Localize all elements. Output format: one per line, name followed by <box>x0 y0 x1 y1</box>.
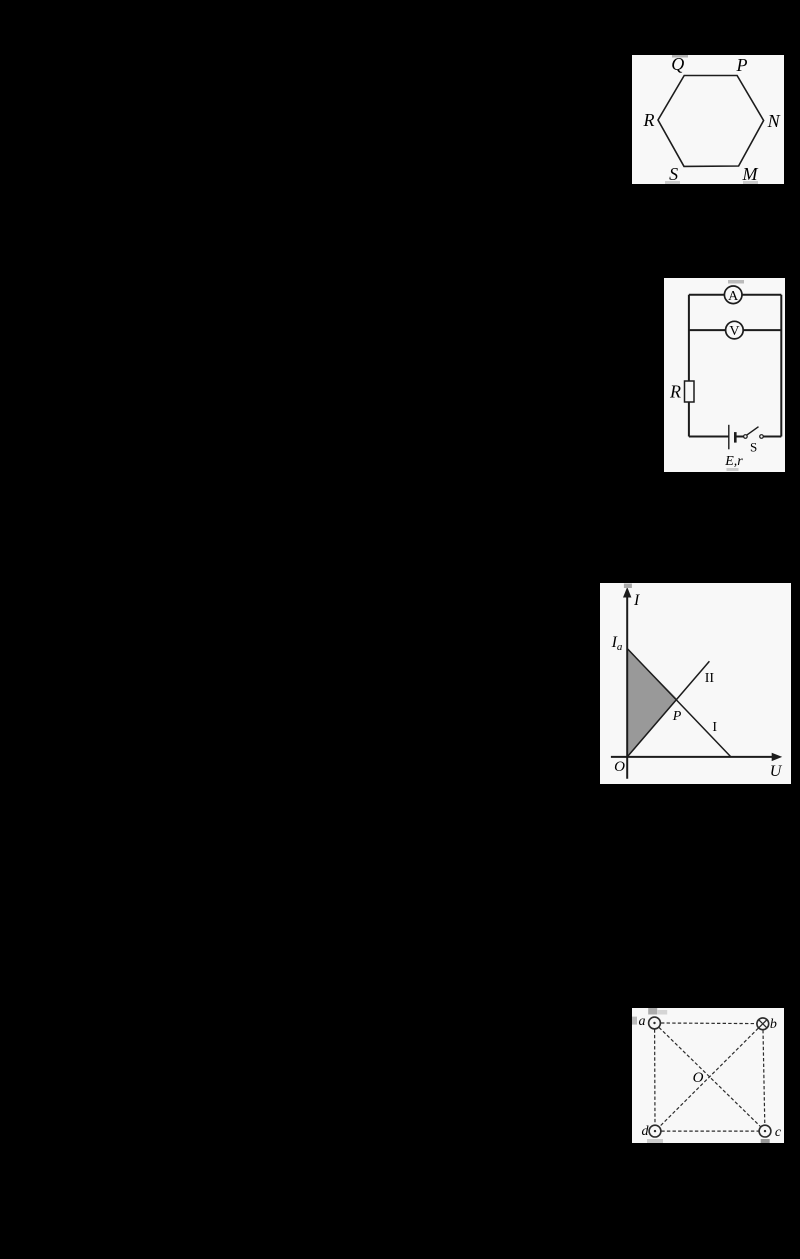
svg-text:P: P <box>736 55 748 75</box>
shaded triangle <box>627 649 677 757</box>
svg-text:V: V <box>729 324 739 339</box>
figure 4: square abcd with field-line symbols <box>632 1008 784 1143</box>
dashed square edge a-d <box>654 1029 656 1125</box>
scan smudge top <box>728 280 744 284</box>
svg-text:A: A <box>728 289 739 304</box>
svg-text:I: I <box>633 592 640 609</box>
scan smudge left <box>632 1017 637 1025</box>
switch S contact left <box>744 435 748 439</box>
svg-text:U: U <box>770 763 783 780</box>
axis U (horizontal) <box>611 756 778 758</box>
wire c (current out) <box>759 1125 771 1137</box>
scan smudge bottom right <box>761 1139 770 1143</box>
scan smudge bottom right <box>743 181 758 184</box>
svg-text:b: b <box>770 1017 777 1032</box>
svg-text:I: I <box>712 720 717 735</box>
wire battery to switch <box>735 436 743 438</box>
svg-text:R: R <box>643 110 655 130</box>
wire bottom left <box>689 436 729 438</box>
scan smudge bottom <box>727 468 739 471</box>
switch S lever <box>747 427 759 436</box>
battery E,r long plate <box>728 425 730 450</box>
wire a (current out) <box>649 1017 661 1029</box>
battery E,r short plate <box>734 432 737 443</box>
svg-text:a: a <box>639 1014 646 1029</box>
axis I (vertical) <box>626 591 628 779</box>
resistor R <box>685 381 695 402</box>
dashed diagonal b-d <box>659 1028 758 1127</box>
svg-text:c: c <box>775 1125 782 1140</box>
dashed square edge b-c <box>763 1030 765 1125</box>
ammeter A1 <box>724 286 742 304</box>
scan smudge top <box>672 55 688 58</box>
figure 1: hexagon QPNMSR <box>632 55 784 184</box>
dashed square edge a-b <box>661 1022 757 1025</box>
svg-text:Q: Q <box>671 55 684 74</box>
svg-text:O: O <box>693 1070 704 1086</box>
figure 3: I-U graph <box>600 583 791 784</box>
voltmeter V1 <box>726 321 744 339</box>
scan smudge top <box>624 584 632 589</box>
line II <box>627 661 709 757</box>
dashed square edge d-c <box>661 1130 758 1132</box>
wire top <box>689 294 781 296</box>
svg-text:O: O <box>614 759 625 775</box>
svg-text:II: II <box>705 671 715 686</box>
scan smudge top <box>648 1008 657 1015</box>
svg-text:R: R <box>669 382 681 402</box>
svg-text:S: S <box>750 440 757 455</box>
wire right vertical <box>780 295 782 437</box>
svg-text:N: N <box>767 111 781 131</box>
dashed diagonal a-c <box>659 1027 761 1126</box>
wire voltmeter branch <box>689 329 781 331</box>
svg-text:d: d <box>642 1124 650 1139</box>
wire switch to right <box>763 436 781 438</box>
line I <box>627 649 731 757</box>
wire b (current in) <box>757 1018 769 1030</box>
switch S contact right <box>760 435 764 439</box>
svg-text:P: P <box>672 709 682 724</box>
scan smudge bottom left <box>665 181 680 184</box>
svg-text:E,r: E,r <box>724 454 743 469</box>
scan smudge bottom left <box>647 1139 663 1143</box>
figure 2: circuit with ammeter, voltmeter, R, battery E,r and switch S <box>664 278 785 472</box>
wire left vertical <box>688 295 690 437</box>
wire d (current out) <box>649 1125 661 1137</box>
hexagon outline <box>658 76 764 167</box>
svg-text:Ia: Ia <box>611 634 623 653</box>
